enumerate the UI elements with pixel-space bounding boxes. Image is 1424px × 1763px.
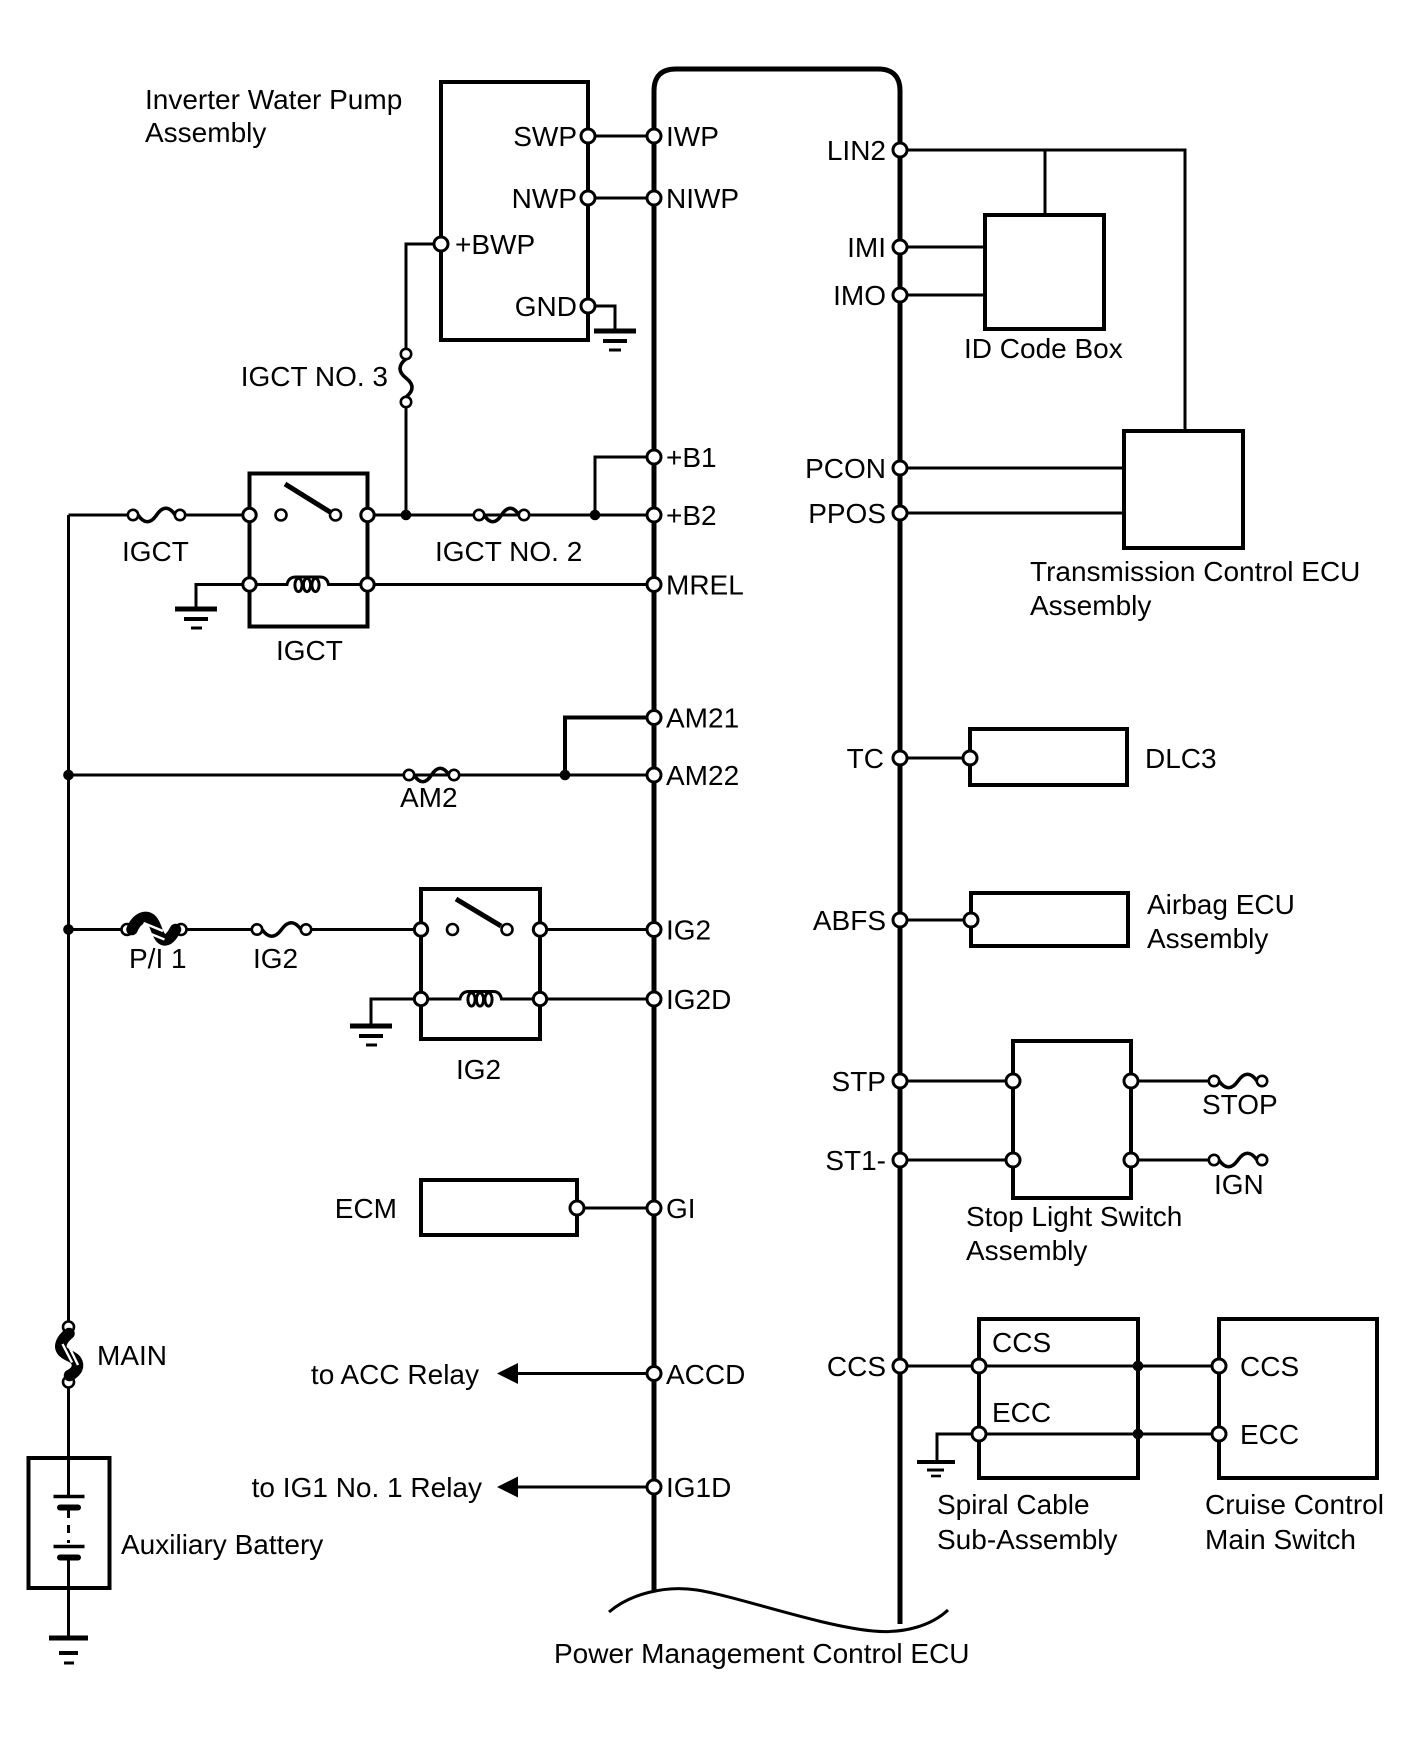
svg-text:to ACC Relay: to ACC Relay [311,1359,479,1390]
ground (inverter GND) [594,331,636,350]
svg-text:CCS: CCS [827,1351,886,1382]
Cruise Control terminals [1212,1359,1226,1441]
Airbag terminal [964,913,978,927]
wire relay coil to MREL [374,583,654,586]
ground (IGCT relay) [175,609,217,628]
wire AM21 branch [565,718,654,776]
svg-text:ACCD: ACCD [666,1359,745,1390]
svg-text:+B1: +B1 [666,442,717,473]
svg-text:Inverter Water Pump: Inverter Water Pump [145,84,402,115]
relay IGCT switch contacts [276,510,342,521]
ECU body outline (Power Management Control ECU) [654,69,900,1624]
Stop Light Switch box [1013,1041,1131,1198]
svg-text:IGCT NO. 3: IGCT NO. 3 [241,361,388,392]
svg-text:DLC3: DLC3 [1145,743,1217,774]
svg-text:ECC: ECC [1240,1419,1299,1450]
svg-text:IWP: IWP [666,121,719,152]
wire IMO [907,294,985,297]
wire AM22 line [69,774,655,777]
relay IG2 terminals [414,923,546,1006]
svg-text:IG2: IG2 [666,915,711,946]
Inverter Water Pump Assembly box [441,82,588,340]
fusible link P/I 1 [122,917,187,940]
junction dot at AM21 branch [560,770,571,781]
svg-text:Airbag ECU: Airbag ECU [1147,889,1295,920]
svg-text:Assembly: Assembly [1030,590,1151,621]
fuse IGN [1209,1153,1267,1167]
Spiral Cable box [979,1319,1138,1478]
svg-text:NWP: NWP [512,183,577,214]
relay IG2 box [421,889,540,1039]
ECU bottom wavy break line [609,1589,948,1632]
svg-text:CCS: CCS [1240,1351,1299,1382]
svg-text:Stop Light Switch: Stop Light Switch [966,1201,1182,1232]
svg-text:Spiral Cable: Spiral Cable [937,1489,1090,1520]
fuse IG2 [252,923,311,937]
svg-text:IG2: IG2 [456,1054,501,1085]
DLC3 box [970,729,1127,785]
wire IG1D arrow [516,1486,654,1489]
wire IG2 relay coil to ground [371,999,414,1025]
arrowhead IG1D [497,1477,518,1498]
junction dot at bus AM22 [63,770,74,781]
wire +B1 branch [595,457,654,515]
svg-text:NIWP: NIWP [666,183,739,214]
svg-text:ID Code Box: ID Code Box [964,333,1123,364]
pin SWP terminal [581,129,595,143]
wire to STOP fuse [1138,1080,1209,1083]
wire ABFS [907,919,971,922]
ground (battery) [49,1638,88,1663]
ECM terminal [570,1201,584,1215]
wire TC [907,757,970,760]
wire battery to ground [67,1557,70,1638]
svg-text:STP: STP [832,1066,886,1097]
svg-text:Assembly: Assembly [966,1235,1087,1266]
wire SWP to IWP [588,135,654,138]
pin GND terminal [581,299,595,313]
svg-text:STOP: STOP [1202,1089,1278,1120]
svg-text:+B2: +B2 [666,500,717,531]
svg-text:IGCT: IGCT [122,536,189,567]
junction dot at IGCT NO.3 [401,510,412,521]
svg-text:PPOS: PPOS [808,498,886,529]
wire ECC through spiral cable [986,1433,1219,1436]
wire CCS [907,1365,979,1368]
fuse STOP [1209,1074,1267,1088]
Spiral Cable terminals [972,1359,986,1441]
wire CCS through spiral cable [986,1365,1219,1368]
wire relay coil to IG2D [547,998,654,1001]
relay IGCT terminals [243,508,374,591]
battery Auxiliary Battery box [29,1458,110,1588]
svg-text:IG1D: IG1D [666,1472,731,1503]
junction dot CCS [1133,1361,1144,1372]
wire P/I 1 to IG2 fuse [186,928,252,931]
fusible link MAIN [61,1322,78,1388]
wire ECM to GI [584,1207,654,1210]
svg-text:AM2: AM2 [400,782,458,813]
svg-text:Transmission Control ECU: Transmission Control ECU [1030,556,1360,587]
svg-text:PCON: PCON [805,453,886,484]
ECM box [421,1180,577,1235]
pin +BWP terminal [434,237,448,251]
ID Code Box [985,215,1104,329]
wire PPOS [907,512,1124,515]
svg-text:IMI: IMI [847,232,886,263]
battery cells [54,1497,85,1558]
svg-text:to IG1 No. 1 Relay: to IG1 No. 1 Relay [252,1472,482,1503]
wire ST1- [907,1159,1013,1162]
svg-text:ECM: ECM [335,1193,397,1224]
svg-text:Main Switch: Main Switch [1205,1524,1356,1555]
svg-text:GND: GND [515,291,577,322]
ground (ECC) [917,1462,955,1476]
wire to IGN fuse [1138,1159,1209,1162]
ECU right terminals [893,143,907,1373]
wire LIN2 [907,150,1185,431]
ECU left terminals [647,129,661,1494]
svg-text:Sub-Assembly: Sub-Assembly [937,1524,1118,1555]
relay IGCT switch blade [285,484,330,512]
svg-text:IMO: IMO [833,280,886,311]
DLC3 terminal [963,751,977,765]
wire ACCD arrow [516,1372,654,1375]
svg-text:Cruise Control: Cruise Control [1205,1489,1384,1520]
wire relay to IG2 terminal [547,928,654,931]
fuse AM2 [404,768,459,782]
svg-text:P/I 1: P/I 1 [129,943,187,974]
wire relay coil to ground [196,585,243,609]
wire IMI [907,246,985,249]
svg-text:AM22: AM22 [666,760,739,791]
svg-text:LIN2: LIN2 [827,135,886,166]
svg-text:ST1-: ST1- [825,1145,886,1176]
svg-text:Auxiliary Battery: Auxiliary Battery [121,1529,323,1560]
svg-text:GI: GI [666,1193,696,1224]
fuse IGCT NO. 3 [400,349,412,407]
svg-text:ECC: ECC [992,1397,1051,1428]
fuse IGCT [128,508,185,522]
svg-text:IGN: IGN [1214,1169,1264,1200]
wire ECC to ground [937,1434,972,1461]
wire IG2 line bus to P/I 1 [69,928,123,931]
svg-text:CCS: CCS [992,1327,1051,1358]
svg-text:Assembly: Assembly [145,117,266,148]
pin NWP terminal [581,191,595,205]
junction dot at bus IG2 [63,924,74,935]
svg-text:SWP: SWP [513,121,577,152]
wire IGCT NO.3 fuse to +B2 line [405,407,408,515]
fuse IGCT NO. 2 [474,508,529,522]
relay IGCT coil [256,577,361,585]
wire left bus vertical [67,515,70,1322]
Cruise Control Main Switch box [1219,1319,1377,1478]
wire MAIN to battery [67,1387,70,1495]
relay IG2 switch blade [456,899,501,926]
svg-text:+BWP: +BWP [455,229,535,260]
svg-text:ABFS: ABFS [813,905,886,936]
svg-text:IG2D: IG2D [666,984,731,1015]
svg-text:IG2: IG2 [253,943,298,974]
arrowhead ACCD [497,1363,518,1384]
Stop Light Switch terminals [1006,1074,1138,1167]
relay IG2 switch contacts [447,924,513,935]
svg-text:MREL: MREL [666,570,744,601]
svg-text:AM21: AM21 [666,703,739,734]
wire GND to ground [595,306,615,330]
svg-text:MAIN: MAIN [97,1340,167,1371]
wire LIN2 branch to ID Code Box [1044,150,1047,215]
relay IGCT box [250,474,368,627]
junction dot at +B1 branch [590,510,601,521]
svg-text:TC: TC [847,743,884,774]
svg-text:IGCT: IGCT [276,635,343,666]
svg-text:Power Management Control ECU: Power Management Control ECU [554,1638,970,1669]
ground (IG2 relay) [350,1026,392,1045]
wire IGCT fuse to relay [185,514,249,517]
wire STP [907,1080,1013,1083]
svg-text:IGCT NO. 2: IGCT NO. 2 [435,536,582,567]
wire NWP to NIWP [588,197,654,200]
junction dot ECC [1133,1429,1144,1440]
Airbag ECU box [971,893,1128,946]
svg-text:Assembly: Assembly [1147,923,1268,954]
wire +BWP to IGCT NO.3 fuse [406,244,434,349]
wire PCON [907,467,1124,470]
wire relay to +B2 [374,514,654,517]
wire bus to IGCT fuse [69,514,129,517]
relay IG2 coil [428,992,533,1000]
Transmission Control ECU box [1124,431,1243,548]
wire IG2 fuse to relay [311,928,421,931]
